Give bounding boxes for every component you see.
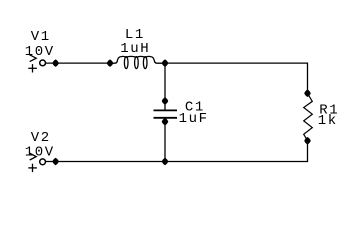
svg-text:10V: 10V xyxy=(25,144,55,160)
inductor L1 xyxy=(110,56,165,68)
wire V1 to L1 xyxy=(46,62,110,64)
svg-text:1uF: 1uF xyxy=(179,111,209,127)
resistor R1 xyxy=(304,93,313,140)
wire node2 down to C1 xyxy=(164,63,166,101)
wire R1 to bottom rail xyxy=(46,141,308,162)
svg-text:10V: 10V xyxy=(25,44,55,60)
junction bottom C1 xyxy=(162,158,169,166)
pin dot R1 bottom xyxy=(304,137,311,145)
svg-text:1uH: 1uH xyxy=(120,41,150,57)
wire C1 to bottom rail xyxy=(164,122,166,162)
pin dot R1 top xyxy=(304,90,311,98)
pin dot C1 bottom xyxy=(162,118,169,126)
junction bottom left xyxy=(52,158,59,166)
junction node 1 xyxy=(52,59,59,67)
svg-text:V1: V1 xyxy=(31,29,51,45)
pin dot L1 right / node 2 junction xyxy=(162,59,169,67)
port V2 xyxy=(28,153,45,172)
port V1 xyxy=(28,55,45,73)
capacitor C1 xyxy=(154,101,178,122)
pin dot C1 top xyxy=(162,97,169,105)
pin dot L1 left xyxy=(107,59,114,67)
svg-text:1k: 1k xyxy=(318,113,338,129)
wire L1 to R1 (top right) xyxy=(165,63,308,93)
